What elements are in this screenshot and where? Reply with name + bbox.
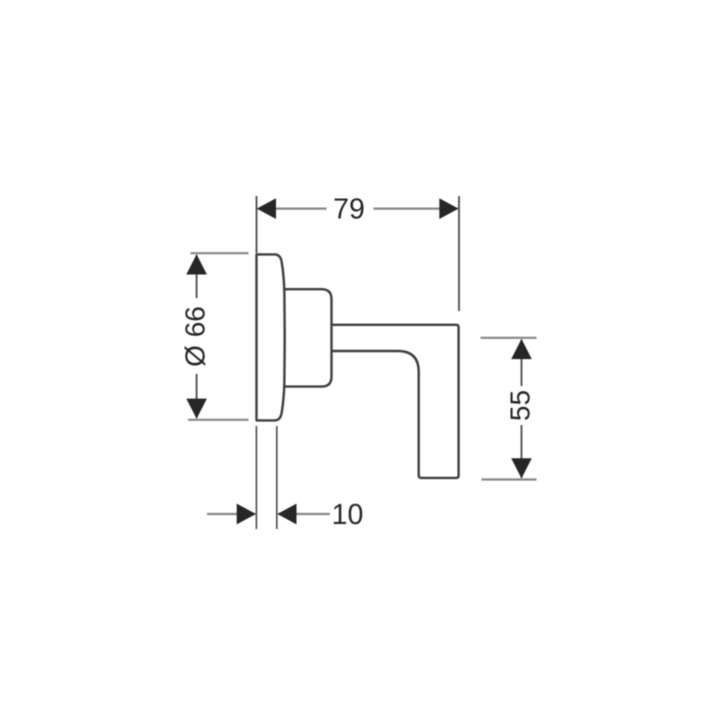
dim 10: right arrowhead (points left) (277, 504, 296, 525)
hub (cartridge sleeve) (285, 289, 332, 386)
dim 10: left extension line (255, 426, 257, 529)
dim Ø66: top arrowhead (186, 254, 207, 274)
lever handle (332, 325, 459, 478)
dim Ø66: bottom arrowhead (186, 399, 207, 419)
dim 10: dimension line left segment (207, 513, 255, 515)
dim 10: dimension line right segment (279, 513, 331, 515)
svg-text:55: 55 (505, 390, 536, 421)
dim Ø66: dimension line upper segment (196, 255, 198, 298)
dim 55: bottom arrowhead (511, 458, 532, 478)
dim Ø66: dimension line lower segment (196, 374, 198, 418)
svg-text:Ø 66: Ø 66 (180, 306, 211, 367)
dim 55: dimension line lower segment (521, 425, 523, 478)
dim 55: top extension line (481, 337, 537, 339)
dim 55: dimension line upper segment (521, 340, 523, 387)
dim Ø66: top extension line (191, 252, 249, 254)
dim 79: right extension line (458, 196, 460, 311)
escutcheon (wall plate, side view) (257, 254, 285, 420)
dim 79: right arrowhead (439, 198, 458, 219)
dim 10: left arrowhead (points right) (237, 504, 256, 525)
dim 79: left arrowhead (257, 198, 276, 219)
dim 79: left extension line (256, 196, 258, 253)
dim Ø66: bottom extension line (188, 419, 249, 421)
dim 55: top arrowhead (511, 339, 532, 359)
dim 10: right extension line (276, 426, 278, 529)
svg-text:10: 10 (332, 499, 364, 531)
svg-text:79: 79 (333, 194, 365, 226)
dim 79: dimension line left segment (258, 208, 327, 210)
dim 55: bottom extension line (482, 478, 537, 480)
dim 79: dimension line right segment (374, 208, 458, 210)
